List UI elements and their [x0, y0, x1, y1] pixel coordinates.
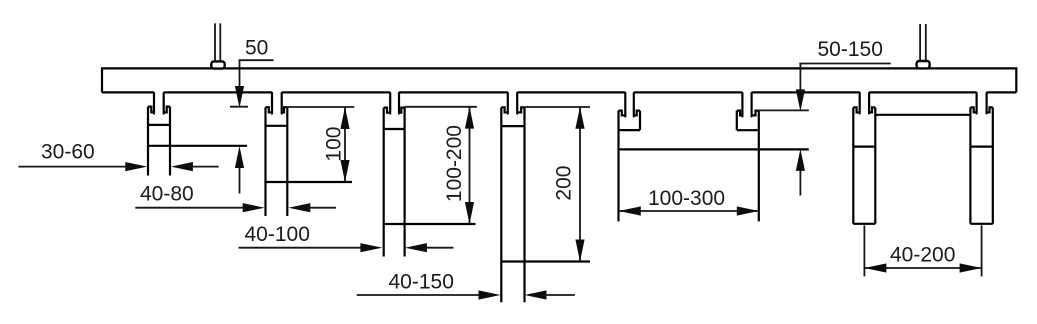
hanger clamp E4	[501, 93, 590, 302]
svg-text:200: 200	[553, 166, 576, 201]
dimension 100 (vertical)	[287, 107, 354, 182]
dimension 30-60	[19, 141, 219, 172]
hanger clamp E2	[266, 93, 353, 216]
svg-text:100-300: 100-300	[648, 187, 725, 210]
dimension 40-150	[357, 271, 575, 300]
svg-text:40-100: 40-100	[245, 223, 310, 246]
hanger clamp E8	[970, 93, 992, 224]
svg-text:50-150: 50-150	[818, 38, 883, 61]
dimension 50 (leader and arrows)	[230, 36, 274, 193]
hanger clamp E3	[384, 93, 476, 257]
post P2	[917, 24, 930, 68]
hanger clamp E7	[853, 93, 875, 224]
dimension 40-80	[135, 182, 336, 212]
connecting bar between E7 and E8	[875, 114, 970, 116]
wide hanger E5 left claw	[619, 93, 641, 221]
svg-text:40-80: 40-80	[140, 182, 194, 205]
post P1	[211, 23, 224, 68]
dimension 200 (vertical)	[525, 107, 591, 262]
svg-text:50: 50	[245, 36, 268, 59]
hanger clamp E1	[148, 93, 247, 176]
rail (busbar body)	[102, 68, 1016, 92]
svg-text:100: 100	[322, 127, 345, 162]
wide hanger E5 bottom plate	[619, 148, 809, 150]
dimension 100-300	[619, 187, 759, 216]
svg-text:40-200: 40-200	[890, 243, 955, 266]
dimension 40-100	[239, 223, 454, 252]
dimension 40-200	[864, 225, 981, 276]
dimension 50-150 (leader and arrows)	[796, 38, 891, 196]
svg-text:40-150: 40-150	[389, 271, 454, 294]
wide hanger E5 right claw	[737, 93, 759, 221]
claw top extension line for 50-150	[759, 109, 809, 111]
dimension 100-200 (vertical)	[405, 107, 477, 224]
svg-text:30-60: 30-60	[41, 141, 95, 164]
svg-text:100-200: 100-200	[443, 125, 466, 202]
